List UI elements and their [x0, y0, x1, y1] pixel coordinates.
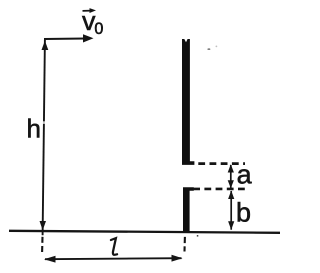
svg-text:b: b: [236, 198, 251, 228]
svg-text:a: a: [237, 160, 253, 190]
svg-text:h: h: [27, 114, 41, 144]
svg-text:0: 0: [94, 20, 103, 38]
